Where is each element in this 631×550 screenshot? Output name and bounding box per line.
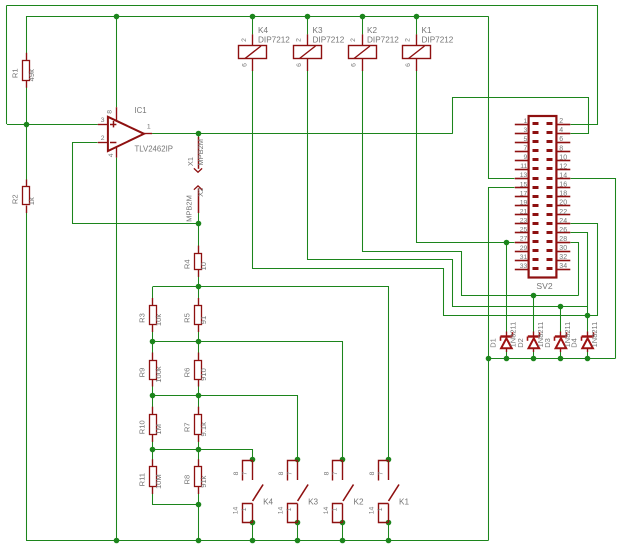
connector SV2 pin 16 stub (556, 187, 570, 189)
wire K2 coil pin6 to D2 line (363, 71, 579, 296)
connector SV2 pin 19 stub (515, 205, 529, 207)
connector SV2 pin 25 stub (515, 232, 529, 234)
svg-text:2: 2 (559, 118, 563, 125)
wire R10 bottom to rail 4 (152, 434, 154, 449)
wire K1 coil pin6 to D1 node and SV2 pin 27 (417, 71, 515, 243)
svg-text:49k: 49k (27, 69, 36, 81)
wire K3 contact bottom to GND bus (297, 522, 299, 540)
junction D1 node (506.4,242) (504, 240, 510, 246)
connector SV2 pin 20 stub (556, 205, 570, 207)
svg-text:MPB2M: MPB2M (196, 139, 205, 166)
svg-text:7: 7 (286, 471, 293, 475)
connector SV2 pin 3 stub (515, 133, 529, 135)
svg-text:7: 7 (377, 471, 384, 475)
connector SV2 pin 25 pad (533, 231, 539, 234)
svg-text:MPB2M: MPB2M (185, 195, 194, 222)
connector SV2 pin 20 pad (547, 204, 553, 207)
resistor R1 value 49k (11, 53, 36, 88)
wire D3 node to SV2 pin 26 (571, 233, 588, 307)
junction GND at K2 contact column (340, 538, 346, 544)
wire R6 top (198, 342, 200, 360)
connector SV2 pin 30 pad (547, 249, 553, 252)
svg-text:26: 26 (559, 227, 567, 234)
svg-text:910: 910 (199, 368, 208, 381)
svg-text:2: 2 (241, 38, 248, 42)
op-amp IC1 TLV2462IP (98, 106, 173, 158)
wire R7 top (198, 396, 200, 414)
wire R6 bottom to rail 3 (198, 379, 200, 396)
svg-text:3: 3 (101, 117, 105, 124)
connector SV2 pin 1 pad (533, 122, 539, 125)
svg-text:R4: R4 (183, 259, 192, 269)
wire R4 bottom to ladder rail 1 (198, 269, 200, 287)
connector SV2 pin 28 pad (547, 240, 553, 243)
wire segment x=587.6 y306-315 (587, 306, 589, 315)
connector SV2 pin 10 pad (547, 158, 553, 161)
svg-text:K2: K2 (354, 498, 364, 507)
svg-text:15: 15 (520, 181, 528, 188)
junction GND at K1 contact column (386, 538, 392, 544)
svg-text:31: 31 (520, 254, 528, 261)
connector SV2 pin 24 pad (547, 222, 553, 225)
svg-text:16: 16 (559, 182, 567, 189)
wire K4 contact bottom to GND bus (252, 522, 254, 540)
junction feedback node at X2/R4 (198,223) (196, 221, 202, 227)
connector SV2 pin 6 pad (547, 140, 553, 143)
svg-text:10: 10 (559, 154, 567, 161)
svg-text:30: 30 (559, 245, 567, 252)
connector SV2 pin 15 stub (515, 187, 529, 189)
svg-text:33: 33 (520, 263, 528, 270)
svg-text:SV2: SV2 (536, 281, 552, 291)
connector SV2 pin 23 pad (533, 222, 539, 225)
junction node +IN at R1 bottom (26,124) (24, 122, 30, 128)
wire op-amp pin 8 supply drop (116, 16, 118, 107)
zener diode D2 1N821 (516, 322, 545, 352)
connector SV2 pin 9 pad (533, 158, 539, 161)
svg-text:X1: X1 (186, 157, 195, 166)
resistor R9 value 100k (138, 353, 163, 387)
connector SV2 pin 7 stub (515, 151, 529, 153)
svg-text:21: 21 (520, 209, 528, 216)
svg-text:17: 17 (520, 190, 528, 197)
wire VCC down to SV2 pin 13 (489, 17, 515, 179)
junction K4 contact bottom (pin1) (250, 520, 256, 526)
resistor R3 value 10k (138, 298, 163, 332)
junction D4 node (587.6,315.1) (585, 313, 591, 319)
svg-text:8: 8 (233, 471, 240, 475)
junction R11/R8 node (198,505) (196, 502, 202, 508)
wire R1 bottom to +IN node (26, 80, 28, 124)
junction GND at K3 contact column (295, 538, 301, 544)
svg-text:11: 11 (520, 163, 527, 170)
resistor R6 value 910 (183, 353, 208, 387)
svg-text:TLV2462IP: TLV2462IP (135, 145, 173, 154)
svg-text:18: 18 (559, 191, 567, 198)
connector SV2 pin 24 stub (556, 223, 570, 225)
connector SV2 pin 18 pad (547, 195, 553, 198)
junction VCC at K1 coil column (414, 14, 420, 20)
svg-text:8: 8 (106, 110, 113, 114)
wire K1 contact bottom to GND bus (388, 522, 390, 540)
connector SV2 pin 28 stub (556, 242, 570, 244)
junction anode bus at D1 (504, 356, 510, 362)
svg-text:K2: K2 (367, 26, 377, 35)
junction K4 contact top (pin7) (250, 457, 256, 463)
svg-text:91: 91 (199, 316, 208, 324)
wire R2 top from +IN node (26, 124, 28, 187)
connector SV2 pin 4 stub (556, 133, 570, 135)
junction rail3 at R6/R7 column (196, 393, 202, 399)
svg-text:14: 14 (323, 507, 330, 515)
connector SV2 pin 16 pad (547, 186, 553, 189)
svg-text:12: 12 (559, 163, 567, 170)
svg-text:1: 1 (241, 507, 248, 511)
svg-text:8: 8 (559, 145, 563, 152)
relay contact K2 (323, 460, 364, 522)
connector SV2 pin 26 pad (547, 231, 553, 234)
svg-text:K4: K4 (263, 498, 273, 507)
relay coil K2 DIP7212 (349, 26, 400, 71)
junction rail4 at R10/R11 column (150, 447, 156, 453)
connector SV2 pin 13 pad (533, 177, 539, 180)
svg-text:22: 22 (559, 209, 567, 216)
jumper X2 MPB2M (185, 186, 205, 222)
wire K4 coil pin6 to D4 line and SV2 pin 24 (253, 71, 588, 316)
wire K4 coil pin2 from VCC (252, 16, 254, 34)
wire output node down to X1 (198, 133, 200, 137)
connector SV2 pin 14 stub (556, 178, 570, 180)
wire ladder rail 4 y=449.4 to K4 contact (153, 450, 253, 460)
wire R1 top to VCC rail (26, 16, 28, 60)
wire diode anode bus y=359 (489, 358, 616, 360)
wire D4 node to SV2 pin 24 (571, 224, 598, 316)
wire K3 coil pin2 from VCC (307, 16, 309, 34)
svg-text:K1: K1 (422, 26, 432, 35)
svg-text:DIP7212: DIP7212 (313, 36, 345, 45)
svg-text:1N8211: 1N8211 (590, 322, 599, 348)
wire R11 top (152, 449, 154, 466)
junction anode bus at D2 (531, 356, 537, 362)
junction rail2 at R5/R6 column (196, 339, 202, 345)
svg-text:DIP7212: DIP7212 (367, 36, 399, 45)
junction rail1 at R4/R5 column (196, 284, 202, 290)
junction K1 contact top (pin7) (386, 457, 392, 463)
wire R5 bottom to rail 2 (198, 325, 200, 342)
junction VCC at K3 coil column (305, 14, 311, 20)
connector SV2 pin 32 pad (547, 258, 553, 261)
wire net GND bottom bus (26, 540, 489, 542)
svg-text:20: 20 (559, 200, 567, 207)
svg-text:14: 14 (559, 173, 567, 180)
resistor R8 value 91k (183, 459, 208, 494)
connector SV2 pin 14 pad (547, 177, 553, 180)
svg-text:4: 4 (108, 153, 115, 157)
svg-text:27: 27 (520, 236, 528, 243)
junction anode bus at D3 (558, 356, 564, 362)
connector SV2 pin 31 pad (533, 258, 539, 261)
svg-text:D1: D1 (489, 338, 498, 348)
connector SV2 pin 5 pad (533, 140, 539, 143)
connector SV2 pin 11 stub (515, 169, 529, 171)
svg-text:4: 4 (559, 127, 563, 134)
connector SV2 pin 30 stub (556, 251, 570, 253)
connector SV2 pin 21 stub (515, 214, 529, 216)
connector SV2 pin 19 pad (533, 204, 539, 207)
junction anode bus left corner (486, 356, 492, 362)
svg-text:K4: K4 (258, 26, 268, 35)
connector SV2 pin 15 pad (533, 186, 539, 189)
svg-text:D2: D2 (516, 338, 525, 348)
connector SV2 pin 10 stub (556, 160, 570, 162)
junction output node at X1 (198,133) (196, 131, 202, 137)
svg-text:14: 14 (369, 507, 376, 515)
connector SV2 pin 34 pad (547, 267, 553, 270)
svg-text:14: 14 (233, 507, 240, 515)
svg-text:10M: 10M (154, 474, 163, 489)
svg-text:7: 7 (524, 145, 528, 152)
junction rail4 at R7/R8 column (196, 447, 202, 453)
wire R3 top (152, 287, 154, 306)
svg-text:10: 10 (199, 262, 208, 270)
connector SV2 pin 29 pad (533, 249, 539, 252)
svg-text:14: 14 (278, 507, 285, 515)
zener diode D1 1N821 (489, 322, 518, 352)
wire D1 top feed (506, 242, 508, 333)
relay contact K4 (233, 460, 274, 522)
svg-text:2: 2 (350, 38, 357, 42)
connector SV2 pin 2 stub (556, 124, 570, 126)
svg-text:R1: R1 (11, 68, 20, 78)
junction K3 contact bottom (pin1) (295, 520, 301, 526)
wire K2 contact bottom to GND bus (342, 522, 344, 540)
connector SV2 pin 27 stub (515, 242, 529, 244)
relay contact K3 (278, 460, 319, 522)
svg-text:9.1k: 9.1k (199, 422, 208, 437)
svg-text:R8: R8 (183, 475, 192, 485)
junction VCC at K4 coil column (250, 14, 256, 20)
wire D2 anode stub (533, 352, 535, 359)
svg-text:2: 2 (296, 38, 303, 42)
junction K1 contact bottom (pin1) (386, 520, 392, 526)
wire op-amp pin 2 feedback to X2 node (73, 143, 199, 224)
connector SV2 pin 17 pad (533, 195, 539, 198)
svg-text:6: 6 (351, 63, 358, 67)
svg-text:K3: K3 (313, 26, 323, 35)
wire K3 coil pin6 to D3 line (308, 71, 588, 307)
resistor R5 value 91 (183, 298, 208, 332)
wire R9 bottom to rail 3 (152, 379, 154, 396)
wire K1 coil pin2 from VCC (416, 16, 418, 34)
connector SV2 pin 11 pad (533, 167, 539, 170)
svg-text:R5: R5 (183, 313, 192, 323)
zener diode D4 1N821 (570, 322, 599, 352)
relay coil K1 DIP7212 (403, 26, 454, 71)
wire net +IN left rail vertical (6, 6, 8, 125)
wire net +IN horizontal to op-amp pin 3 (7, 124, 98, 126)
svg-text:6: 6 (559, 136, 563, 143)
connector SV2 pin 33 pad (533, 267, 539, 270)
svg-text:6: 6 (242, 63, 249, 67)
svg-text:DIP7212: DIP7212 (422, 36, 454, 45)
svg-text:32: 32 (559, 254, 567, 261)
connector SV2 pin 27 pad (533, 240, 539, 243)
connector SV2 pin 29 stub (515, 251, 529, 253)
svg-text:R9: R9 (138, 368, 147, 378)
connector SV2 pin 2 pad (547, 122, 553, 125)
wire R10 top (152, 396, 154, 414)
connector SV2 pin 1 stub (515, 124, 529, 126)
relay coil K3 DIP7212 (294, 26, 345, 71)
connector SV2 pin 8 pad (547, 149, 553, 152)
connector SV2 34-pin header (515, 116, 571, 291)
resistor R11 value 10M (138, 459, 163, 494)
wire feedback node down to R4 (198, 223, 200, 253)
connector SV2 pin 34 stub (556, 269, 570, 271)
wire D3 top feed (560, 306, 562, 333)
wire R11 bottom jog to R8 column (153, 487, 199, 505)
svg-text:1: 1 (147, 124, 151, 131)
svg-text:8: 8 (323, 471, 330, 475)
svg-text:28: 28 (559, 236, 567, 243)
svg-text:1: 1 (524, 118, 528, 125)
svg-text:3: 3 (524, 127, 528, 134)
junction K2 contact bottom (pin1) (340, 520, 346, 526)
wire op-amp pin 4 down to GND (116, 158, 118, 540)
junction K3 contact top (pin7) (295, 457, 301, 463)
connector SV2 pin 22 pad (547, 213, 553, 216)
connector SV2 pin 17 stub (515, 196, 529, 198)
svg-text:K1: K1 (399, 498, 409, 507)
svg-text:29: 29 (520, 245, 528, 252)
resistor R2 value 1k (11, 180, 36, 214)
connector SV2 pin 13 stub (515, 178, 529, 180)
connector SV2 pin 12 pad (547, 167, 553, 170)
svg-text:X2: X2 (196, 188, 205, 197)
svg-text:1: 1 (377, 507, 384, 511)
wire net VCC horizontal y=16 (26, 16, 489, 18)
svg-text:1: 1 (332, 507, 339, 511)
connector SV2 pin 33 stub (515, 269, 529, 271)
relay contact K1 (369, 460, 410, 522)
svg-text:6: 6 (296, 63, 303, 67)
junction VCC at K2 coil column (360, 14, 366, 20)
wire ladder rail 2 y=341.7 to K2 contact (153, 342, 343, 460)
wire op-amp output to right (152, 133, 453, 135)
connector SV2 pin 8 stub (556, 151, 570, 153)
connector SV2 pin 21 pad (533, 213, 539, 216)
svg-text:10k: 10k (154, 314, 163, 326)
svg-text:2: 2 (101, 135, 105, 142)
wire R8 bottom to GND bus (198, 487, 200, 541)
svg-text:9: 9 (524, 154, 528, 161)
svg-text:7: 7 (332, 471, 339, 475)
svg-text:R6: R6 (183, 368, 192, 378)
wire D3 anode stub (560, 352, 562, 359)
junction GND at op-amp pin4 column (114, 538, 120, 544)
connector SV2 pin 4 pad (547, 131, 553, 134)
svg-text:13: 13 (520, 172, 528, 179)
svg-text:IC1: IC1 (135, 106, 147, 115)
junction D3 node (560.9,306) (558, 304, 564, 310)
svg-text:6: 6 (405, 63, 412, 67)
connector SV2 pin 6 stub (556, 142, 570, 144)
svg-text:1: 1 (286, 507, 293, 511)
wire anode bus down to GND bus (488, 359, 490, 540)
connector SV2 pin 5 stub (515, 142, 529, 144)
wire D4 anode stub (587, 352, 589, 359)
resistor R10 value 1M (138, 407, 163, 442)
svg-text:34: 34 (559, 263, 567, 270)
wire R7 bottom to rail 4 (198, 434, 200, 449)
svg-text:R2: R2 (11, 194, 20, 204)
junction rail3 at R9/R10 column (150, 393, 156, 399)
svg-text:R10: R10 (138, 420, 147, 434)
svg-text:24: 24 (559, 218, 567, 225)
wire R8 top (198, 449, 200, 466)
resistor R7 value 9.1k (183, 407, 208, 442)
svg-text:D4: D4 (570, 338, 579, 348)
svg-text:2: 2 (405, 38, 412, 42)
svg-text:D3: D3 (543, 338, 552, 348)
connector SV2 pin 32 stub (556, 260, 570, 262)
connector SV2 pin 9 stub (515, 160, 529, 162)
wire D1 anode stub (506, 352, 508, 359)
wire net +IN top border from left rail to SV2 pin 2 (7, 6, 598, 125)
wire R9 top (152, 342, 154, 360)
svg-text:23: 23 (520, 218, 528, 225)
wire SV2 pin 15 to anode bus (489, 188, 515, 359)
svg-text:8: 8 (278, 471, 285, 475)
junction anode bus at D4 (585, 356, 591, 362)
svg-text:DIP7212: DIP7212 (258, 36, 290, 45)
svg-text:R3: R3 (138, 313, 147, 323)
wire D2 node to SV2 pin 28 (571, 243, 579, 296)
svg-text:100k: 100k (154, 366, 163, 383)
junction K2 contact top (pin7) (340, 457, 346, 463)
jumper X1 MPB2M (186, 137, 205, 172)
svg-text:5: 5 (524, 136, 528, 143)
wire output jog up to SV2 pin 4 (453, 98, 589, 134)
wire R2 bottom to GND rail (26, 206, 28, 541)
wire ladder rail 1 y=287 to K1 contact (153, 287, 389, 460)
connector SV2 pin 12 stub (556, 169, 570, 171)
wire K2 coil pin2 from VCC (362, 16, 364, 34)
zener diode D3 1N821 (543, 322, 572, 352)
junction rail2 at R3/R9 column (150, 339, 156, 345)
svg-text:7: 7 (241, 471, 248, 475)
connector SV2 pin 7 pad (533, 149, 539, 152)
svg-text:25: 25 (520, 227, 528, 234)
wire D2 top feed (533, 296, 535, 333)
svg-text:8: 8 (369, 471, 376, 475)
junction D2 node (533.8,295.9) (531, 293, 537, 299)
svg-text:19: 19 (520, 199, 528, 206)
svg-text:R11: R11 (138, 473, 147, 486)
junction VCC at op-amp pin8 column (114, 14, 120, 20)
wire R5 top (198, 287, 200, 306)
connector SV2 pin 23 stub (515, 223, 529, 225)
wire SV2 pin 14 to anode bus right end (571, 179, 616, 359)
junction GND at K4 contact column (250, 538, 256, 544)
connector SV2 pin 31 stub (515, 260, 529, 262)
svg-text:91k: 91k (199, 475, 208, 487)
connector SV2 pin 26 stub (556, 232, 570, 234)
junction GND at R8 column (196, 538, 202, 544)
svg-text:1M: 1M (154, 424, 163, 435)
connector SV2 pin 3 pad (533, 131, 539, 134)
relay coil K4 DIP7212 (239, 26, 291, 71)
